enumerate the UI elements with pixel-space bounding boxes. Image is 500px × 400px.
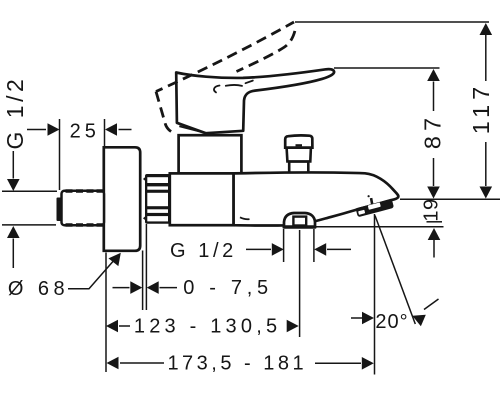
svg-text:173,5 - 181: 173,5 - 181 xyxy=(167,353,307,375)
svg-text:Ø 68: Ø 68 xyxy=(8,278,69,300)
svg-text:20°: 20° xyxy=(375,311,408,333)
svg-text:25: 25 xyxy=(70,120,100,142)
svg-text:123 - 130,5: 123 - 130,5 xyxy=(134,316,281,338)
svg-text:G 1/2: G 1/2 xyxy=(170,240,237,262)
svg-text:117: 117 xyxy=(468,82,494,134)
svg-text:G 1/2: G 1/2 xyxy=(2,76,28,150)
svg-text:19: 19 xyxy=(421,198,443,221)
svg-text:0 - 7,5: 0 - 7,5 xyxy=(183,277,273,299)
svg-text:87: 87 xyxy=(419,113,445,149)
